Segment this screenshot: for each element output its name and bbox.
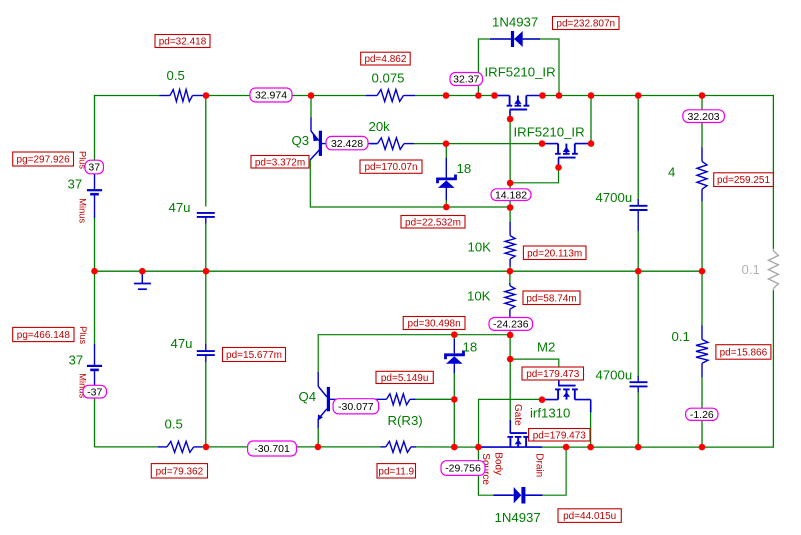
resistor 0.1 bottom <box>696 339 708 363</box>
power label pg=297.926 <box>13 152 74 166</box>
wire zener18-bot to bottom rail <box>453 399 455 447</box>
wire bottom rail right segment <box>542 446 774 448</box>
junction wire334 zener <box>451 331 458 338</box>
wire MOSFET2 gate lead <box>558 158 560 168</box>
junction U1 gate <box>507 116 514 123</box>
value label 47u top <box>169 200 191 215</box>
node bubble -1.26 <box>686 408 718 421</box>
resistor 0.5 bottom <box>158 441 202 452</box>
svg-text:-1.26: -1.26 <box>690 409 714 421</box>
resistor 4 <box>697 161 707 189</box>
wire node 14.182 vertical <box>509 183 511 208</box>
value label 0.1 gray <box>742 262 760 277</box>
power label pg=466.148 <box>13 327 74 341</box>
power label pd=20.113m <box>523 246 586 260</box>
node bubble 32.203 <box>683 110 725 123</box>
svg-text:Body: Body <box>493 452 504 475</box>
svg-text:IRF5210_IR: IRF5210_IR <box>514 125 585 140</box>
svg-text:10K: 10K <box>468 240 492 255</box>
svg-text:0.5: 0.5 <box>167 68 185 83</box>
wire R3a right lead <box>410 398 454 400</box>
wire battery V1 bottom lead <box>94 194 96 271</box>
svg-text:47u: 47u <box>169 200 191 215</box>
wire top rail right segment <box>542 95 774 97</box>
junction top rail R4 <box>699 92 706 99</box>
wire top diode loop <box>478 39 559 96</box>
svg-text:R(R3): R(R3) <box>388 413 423 428</box>
wire 47u-top lower lead <box>205 217 207 271</box>
value label 4700u bottom <box>596 368 633 383</box>
junction top rail U2-source <box>588 92 595 99</box>
svg-text:-30.077: -30.077 <box>338 401 374 413</box>
svg-text:pd=44.015u: pd=44.015u <box>563 511 616 522</box>
power label pd=30.498n <box>403 317 465 330</box>
value label 0.075 <box>372 71 405 86</box>
pin label Gate <box>512 404 523 426</box>
wire 47u-bot branch <box>205 271 207 351</box>
capacitor 47u top <box>197 213 215 217</box>
value label 4700u top <box>596 190 633 205</box>
svg-text:pd=30.498n: pd=30.498n <box>408 319 461 330</box>
wire 47u-bot lower lead <box>205 355 207 447</box>
value label 1N4937 bottom <box>495 510 541 525</box>
junction bottom rail R0.1 <box>699 444 706 451</box>
value label 1N4937 top <box>492 15 538 30</box>
svg-text:0.5: 0.5 <box>165 417 183 432</box>
node bubble 37 <box>85 160 104 174</box>
svg-text:Plus: Plus <box>78 326 88 344</box>
wire Q3 emitter lead <box>310 96 312 132</box>
resistor 20k <box>370 138 404 150</box>
wire top rail left segment <box>95 95 161 97</box>
resistor 10K lower <box>505 286 515 310</box>
svg-text:-30.701: -30.701 <box>254 443 290 455</box>
ground <box>134 271 151 289</box>
wire M2 source to bottom rail <box>590 412 592 447</box>
svg-text:20k: 20k <box>369 119 391 134</box>
svg-text:pg=466.148: pg=466.148 <box>17 330 71 341</box>
svg-text:32.428: 32.428 <box>331 138 363 150</box>
pin label Plus V1 <box>77 151 87 169</box>
zener diode 18 top <box>438 175 456 188</box>
value label R(R3) <box>388 413 423 428</box>
part label Q4 <box>299 389 317 404</box>
power label pd=179.473 M2 <box>522 367 584 380</box>
value label 4 <box>668 165 675 180</box>
svg-text:0.1: 0.1 <box>672 329 690 344</box>
junction top rail mosfet-right <box>539 92 546 99</box>
junction top rail zener <box>443 92 450 99</box>
svg-text:pd=58.74m: pd=58.74m <box>526 293 576 304</box>
wire Q4 emitter lead <box>317 419 319 447</box>
svg-text:pd=3.372m: pd=3.372m <box>255 157 305 168</box>
value label 10K lower <box>467 289 491 304</box>
part label Q3 <box>292 133 310 148</box>
wire bottom rail left <box>95 446 159 449</box>
wire bottom rail segment -30.701 <box>202 446 381 448</box>
wire 20k to node <box>404 143 544 145</box>
wire battery V2 lower lead <box>94 370 96 447</box>
junction bottom rail M2-source <box>587 444 594 451</box>
svg-text:pd=22.532m: pd=22.532m <box>405 217 461 228</box>
value label 0.5 bottom <box>165 417 183 432</box>
svg-text:IRF5210_IR: IRF5210_IR <box>485 65 556 80</box>
wire 47u-top branch <box>205 96 207 207</box>
svg-text:0.1: 0.1 <box>742 262 760 277</box>
wire zener18-top upper lead <box>445 144 447 178</box>
power label pd=179.473 M3 <box>529 429 590 442</box>
wire middle rail <box>95 270 703 272</box>
wire right edge lower <box>772 290 774 448</box>
junction middle rail left <box>91 268 98 275</box>
value label 0.1 bottom <box>672 329 690 344</box>
node bubble -30.701 <box>248 441 297 456</box>
mosfet M2 irf1310 <box>542 386 591 413</box>
power label pd=4.862 <box>361 52 411 65</box>
svg-text:4700u: 4700u <box>596 190 633 205</box>
wire left rail upper (battery V1 branch) <box>94 95 96 174</box>
svg-text:37: 37 <box>88 162 100 174</box>
pin label Body <box>493 452 504 475</box>
wire 4700u-bot lower lead <box>637 387 639 448</box>
junction wire399 zener <box>451 396 458 403</box>
value label 20k <box>369 119 391 134</box>
mosfet U1 IRF5210_IR <box>495 96 543 110</box>
value label 37 V2 <box>69 353 84 368</box>
svg-text:Q3: Q3 <box>292 133 310 148</box>
svg-text:10K: 10K <box>467 289 491 304</box>
battery V1 <box>87 174 102 194</box>
junction base row U2-source <box>588 140 595 147</box>
svg-text:4700u: 4700u <box>596 368 633 383</box>
power label pd=232.807n <box>553 17 620 30</box>
svg-text:pd=15.677m: pd=15.677m <box>226 350 282 361</box>
node bubble 32.974 <box>250 88 292 102</box>
battery V2 <box>87 366 102 370</box>
svg-text:Drain: Drain <box>534 453 545 477</box>
svg-text:pd=259.251: pd=259.251 <box>717 175 771 186</box>
svg-text:irf1310: irf1310 <box>530 406 570 421</box>
power label pd=259.251 <box>714 173 774 187</box>
wire node -24.236 vertical <box>509 330 511 359</box>
svg-text:1N4937: 1N4937 <box>495 510 541 525</box>
svg-text:-29.756: -29.756 <box>445 463 481 475</box>
svg-text:37: 37 <box>69 353 84 368</box>
junction node 14.182 top <box>507 180 514 187</box>
junction M2 drain <box>539 396 546 403</box>
svg-text:pd=5.149u: pd=5.149u <box>381 373 429 384</box>
svg-text:0.075: 0.075 <box>372 71 405 86</box>
wire zener18-bot upper lead <box>453 335 455 354</box>
value label 18 bottom <box>463 340 478 355</box>
node bubble 32.428 <box>326 136 368 149</box>
wire Q3 base lead <box>322 143 378 145</box>
power label pd=5.149u <box>376 371 433 384</box>
node bubble 14.182 <box>491 189 531 202</box>
resistor 0.5 top <box>160 90 204 102</box>
svg-text:Gate: Gate <box>512 404 523 426</box>
resistor 0.075 <box>366 90 415 102</box>
power label pd=44.015u <box>558 509 621 523</box>
pin label Plus V2 <box>78 326 88 344</box>
svg-text:4: 4 <box>668 165 675 180</box>
wire 10K-1 upper lead <box>509 207 511 235</box>
wire R4 lower lead <box>701 189 703 271</box>
svg-text:pd=15.866: pd=15.866 <box>720 347 768 358</box>
svg-text:pd=32.418: pd=32.418 <box>159 37 207 48</box>
wire battery V2 upper lead <box>94 271 96 365</box>
junction middle rail 47u <box>203 268 210 275</box>
wire Q4 collector run <box>318 335 510 387</box>
wire MOSFET2 gate to node 14.182 <box>510 167 558 182</box>
svg-text:pg=297.926: pg=297.926 <box>17 155 71 166</box>
junction top rail Q3 <box>308 92 315 99</box>
svg-text:pd=179.473: pd=179.473 <box>533 430 587 441</box>
svg-text:M2: M2 <box>537 340 555 355</box>
mosfet M3 irf1310 <box>481 433 543 447</box>
diode D1 1N4937 top <box>490 31 540 47</box>
junction middle rail 10K <box>507 268 514 275</box>
value label IRF5210_IR 2 <box>514 125 585 140</box>
resistor 10K upper <box>505 236 515 259</box>
value label irf1310 <box>530 406 570 421</box>
wire M2 drain net <box>479 399 543 447</box>
junction base row U2-drain <box>539 140 546 147</box>
wire bottom diode loop <box>478 447 566 495</box>
power label pd=11.9 <box>377 464 416 478</box>
wire Q4 base lead <box>330 398 387 400</box>
svg-text:Q4: Q4 <box>299 389 317 404</box>
power label pd=15.866 <box>716 345 771 360</box>
power label pd=15.677m <box>223 348 286 362</box>
node bubble 32.37 <box>450 73 483 86</box>
wire gate node vertical <box>509 119 511 183</box>
value label 10K upper <box>468 240 492 255</box>
part label M2 <box>537 340 555 355</box>
node bubble -30.077 <box>333 399 379 414</box>
capacitor 47u bottom <box>197 351 215 355</box>
svg-text:-37: -37 <box>87 386 102 398</box>
value label 0.5 top <box>167 68 185 83</box>
capacitor 4700u top <box>630 206 648 210</box>
junction bottom rail M2-net <box>475 444 482 451</box>
wire top rail segment right of 0.075 <box>415 95 496 97</box>
svg-text:pd=79.362: pd=79.362 <box>156 466 204 477</box>
junction wire334 gate-net <box>507 332 514 339</box>
svg-text:37: 37 <box>68 177 83 192</box>
wire bottom rail segment right of R3 <box>416 446 482 448</box>
wire 10K-2 lower lead <box>509 309 511 318</box>
svg-text:1N4937: 1N4937 <box>492 15 538 30</box>
junction middle rail R4 <box>699 268 706 275</box>
svg-text:pd=11.9: pd=11.9 <box>378 466 414 477</box>
junction wire207 zener <box>443 204 450 211</box>
wire zener18-top lower lead <box>445 188 447 208</box>
junction bottom rail diode-right <box>563 444 570 451</box>
capacitor 4700u bottom <box>630 382 648 386</box>
junction top rail mosfet-left <box>491 92 498 99</box>
wire 10K-2 upper lead <box>509 271 511 286</box>
junction bottom rail 4700u <box>635 444 642 451</box>
power label pd=170.07n <box>360 160 422 173</box>
svg-text:pd=4.862: pd=4.862 <box>364 54 406 65</box>
mosfet U2 IRF5210_IR <box>544 144 591 158</box>
diode D2 1N4937 bottom <box>494 487 543 504</box>
wire top rail segment node 32.974 <box>203 95 367 97</box>
wire Q3 collector run <box>310 160 510 208</box>
junction top rail 47u <box>203 92 210 99</box>
power label pd=58.74m <box>523 291 580 305</box>
pin label Minus V1 <box>78 198 88 223</box>
node bubble -37 <box>83 385 107 398</box>
junction bottom rail 47u <box>203 444 210 451</box>
zener diode 18 bottom <box>446 350 464 363</box>
node bubble -24.236 <box>489 318 533 331</box>
wire gate net vertical lower <box>509 359 511 434</box>
junction bottom rail zener <box>451 444 458 451</box>
svg-text:pd=179.473: pd=179.473 <box>526 369 580 380</box>
svg-text:32.974: 32.974 <box>255 90 287 102</box>
wire R4 branch <box>701 96 703 162</box>
pin label Source <box>480 453 491 485</box>
value label IRF5210_IR top <box>485 65 556 80</box>
power label pd=32.418 <box>155 35 210 48</box>
wire M2 gate branch <box>510 359 559 385</box>
svg-text:18: 18 <box>457 161 472 176</box>
junction middle rail ground <box>139 268 146 275</box>
svg-text:pd=170.07n: pd=170.07n <box>364 162 417 173</box>
junction gate-net M2 branch <box>507 356 514 363</box>
power label pd=79.362 <box>151 464 207 478</box>
svg-text:18: 18 <box>463 340 478 355</box>
svg-text:pd=232.807n: pd=232.807n <box>556 19 615 30</box>
power label pd=3.372m <box>251 156 309 169</box>
value label 37 V1 <box>68 177 83 192</box>
svg-text:32.37: 32.37 <box>453 74 479 86</box>
wire right edge upper <box>772 95 774 250</box>
svg-text:-24.236: -24.236 <box>493 319 529 331</box>
wire R0.1-bot lower lead <box>701 363 703 447</box>
wire zener18-bot lower lead <box>453 364 455 400</box>
junction top rail 4700u <box>635 92 642 99</box>
svg-text:32.203: 32.203 <box>688 111 720 123</box>
value label 47u bottom <box>171 336 193 351</box>
wire MOSFET2 source to rail <box>590 96 592 144</box>
pin label Drain <box>534 453 545 477</box>
node bubble -29.756 <box>441 461 485 476</box>
wire 4700u-bot branch <box>637 271 639 382</box>
pin label Minus V2 <box>78 373 88 398</box>
junction middle rail 4700u <box>635 268 642 275</box>
resistor R3 upper <box>387 394 411 405</box>
svg-text:47u: 47u <box>171 336 193 351</box>
wire R0.1-bot upper lead <box>701 271 703 339</box>
resistor 0.1 gray <box>768 249 778 291</box>
svg-text:14.182: 14.182 <box>495 189 527 201</box>
junction bottom rail Q4 <box>315 444 322 451</box>
junction base row zener <box>443 140 450 147</box>
transistor Q4 <box>318 386 330 421</box>
junction U2 gate <box>555 164 562 171</box>
junction top rail diode-right <box>556 92 563 99</box>
wire 10K-1 lower lead <box>509 259 511 271</box>
wire 4700u-top lower lead <box>637 210 639 271</box>
wire MOSFET1 gate lead <box>509 110 511 120</box>
wire 4700u-top branch <box>637 96 639 206</box>
svg-text:Minus: Minus <box>78 198 88 223</box>
transistor Q3 <box>310 131 322 160</box>
resistor R3 lower <box>381 441 417 452</box>
svg-text:pd=20.113m: pd=20.113m <box>527 248 582 259</box>
value label 18 top <box>457 161 472 176</box>
junction wire207 10K <box>507 204 514 211</box>
junction top rail diode-left <box>475 92 482 99</box>
power label pd=22.532m <box>401 216 465 229</box>
